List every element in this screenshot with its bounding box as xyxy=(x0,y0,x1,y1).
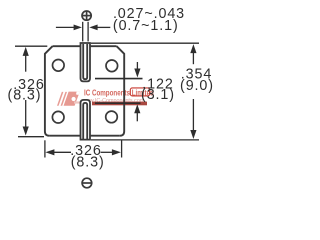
svg-text:(8.3): (8.3) xyxy=(71,154,105,170)
svg-text:(3.1): (3.1) xyxy=(141,87,175,103)
svg-text:(0.7~1.1): (0.7~1.1) xyxy=(113,18,179,34)
svg-text:(9.0): (9.0) xyxy=(180,78,214,94)
svg-text:(8.3): (8.3) xyxy=(8,88,42,104)
